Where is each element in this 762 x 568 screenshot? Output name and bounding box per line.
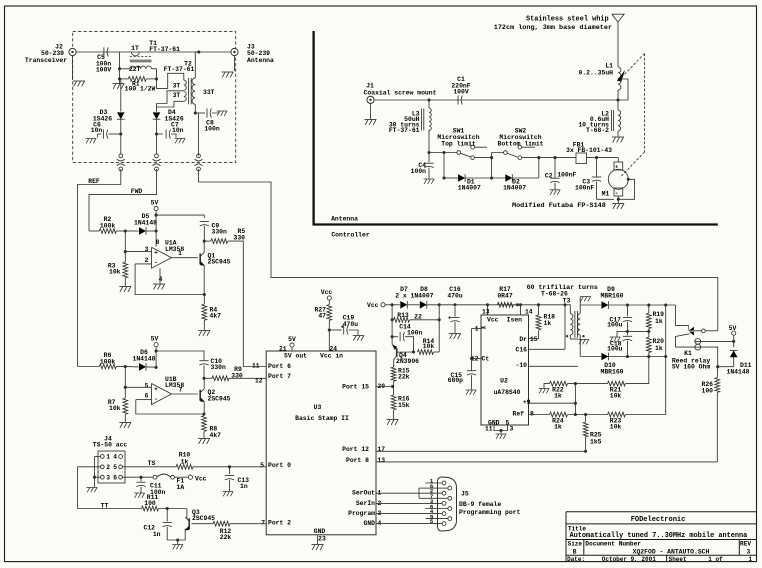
svg-text:-: - [154,260,158,267]
svg-text:7: 7 [261,520,265,527]
svg-text:100u: 100u [607,321,623,328]
svg-text:0.2..35uH: 0.2..35uH [578,69,613,76]
svg-text:REV: REV [740,541,751,548]
svg-text:Port 2: Port 2 [268,520,291,527]
svg-text:Port 12: Port 12 [342,446,369,453]
svg-text:4k7: 4k7 [210,313,222,320]
svg-text:GND: GND [488,419,500,426]
svg-text:Ref: Ref [512,410,524,417]
svg-text:172cm long, 3mm base diameter: 172cm long, 3mm base diameter [494,24,612,32]
svg-text:TS-50 acc: TS-50 acc [93,442,128,449]
svg-text:10k: 10k [109,269,121,276]
svg-text:Isen: Isen [507,316,523,323]
svg-text:330: 330 [234,234,246,241]
svg-text:+: + [154,386,158,393]
svg-text:17: 17 [378,446,386,453]
svg-text:FT-37-61: FT-37-61 [149,46,180,53]
svg-text:Document Number: Document Number [585,541,641,548]
svg-text:R13: R13 [397,312,409,319]
svg-text:2SC945: 2SC945 [208,259,231,266]
svg-text:15k: 15k [398,402,410,409]
svg-text:5V: 5V [151,335,159,342]
svg-text:5V: 5V [288,336,296,343]
svg-text:3T: 3T [173,82,181,89]
svg-text:GND: GND [363,520,375,527]
svg-text:2: 2 [106,464,110,471]
svg-text:MBR160: MBR160 [600,369,623,376]
svg-text:5V: 5V [729,325,737,332]
svg-text:J5: J5 [461,490,469,497]
svg-text:1: 1 [178,250,182,257]
svg-text:5V 160 Ohm: 5V 160 Ohm [672,364,711,371]
svg-text:Antenna: Antenna [247,57,274,64]
svg-text:5V out: 5V out [284,352,307,359]
svg-text:Programming port: Programming port [459,509,521,516]
svg-text:3x FB-101-43: 3x FB-101-43 [566,147,612,154]
svg-text:23: 23 [318,536,326,543]
svg-text:8: 8 [156,239,160,246]
svg-text:10k: 10k [610,424,622,431]
svg-text:10n: 10n [172,127,184,134]
svg-text:1A: 1A [177,484,185,491]
svg-text:L1: L1 [605,62,613,69]
svg-text:8: 8 [530,410,534,417]
svg-text:1n: 1n [240,483,248,490]
svg-text:3T: 3T [173,92,181,99]
svg-text:1k: 1k [655,345,663,352]
svg-text:SerIn: SerIn [356,500,375,507]
svg-text:FT-37-61: FT-37-61 [164,66,195,73]
svg-text:+9: +9 [523,399,531,406]
svg-text:FT-37-61: FT-37-61 [389,127,420,134]
svg-text:1k: 1k [181,458,189,465]
svg-text:Transceiver: Transceiver [25,57,67,64]
svg-text:1k: 1k [554,392,562,399]
svg-text:2SC945: 2SC945 [192,515,215,522]
svg-text:FWD: FWD [131,188,143,195]
svg-text:12: 12 [255,377,263,384]
svg-text:R10: R10 [179,451,191,458]
svg-text:GND: GND [314,528,326,535]
svg-text:T-68-26: T-68-26 [541,290,568,297]
svg-text:T-68-2: T-68-2 [586,127,609,134]
svg-text:Vcc: Vcc [321,289,333,296]
svg-text:1T: 1T [131,45,139,52]
svg-text:13: 13 [378,457,386,464]
svg-text:K1: K1 [684,350,692,357]
svg-text:Vcc: Vcc [195,475,207,482]
svg-text:10n: 10n [91,127,103,134]
svg-text:M1: M1 [602,191,610,198]
svg-text:100n: 100n [407,330,423,337]
svg-text:10k: 10k [423,343,435,350]
svg-text:100V: 100V [453,89,469,96]
svg-text:330n: 330n [212,229,228,236]
svg-text:U2: U2 [500,377,508,384]
svg-text:10k: 10k [109,405,121,412]
svg-text:C2: C2 [545,172,553,179]
svg-text:SerOut: SerOut [352,490,375,497]
svg-text:Antenna: Antenna [331,216,358,223]
svg-text:100n: 100n [204,126,220,133]
svg-text:TT: TT [101,502,109,509]
svg-text:1n: 1n [153,531,161,538]
svg-text:100: 100 [144,500,156,507]
svg-text:1N4148: 1N4148 [132,355,155,362]
svg-text:Sheet: Sheet [669,556,687,563]
svg-text:1k: 1k [554,424,562,431]
svg-text:100n: 100n [411,168,427,175]
svg-text:4: 4 [113,454,117,461]
svg-text:DB-9 female: DB-9 female [459,501,501,508]
svg-text:330n: 330n [211,364,227,371]
svg-text:+: + [154,250,158,257]
svg-text:100 1/2W: 100 1/2W [125,86,156,93]
svg-text:4: 4 [159,276,163,283]
svg-text:1k: 1k [544,320,552,327]
svg-text:13: 13 [482,309,490,316]
svg-text:Basic Stamp II: Basic Stamp II [295,415,349,422]
svg-text:1: 1 [475,326,479,333]
svg-text:0R47: 0R47 [497,292,513,299]
svg-text:22k: 22k [220,534,232,541]
svg-text:1N4007: 1N4007 [458,185,481,192]
svg-text:4k7: 4k7 [210,432,222,439]
svg-text:11: 11 [485,426,493,433]
svg-text:-10: -10 [515,362,527,369]
svg-text:3: 3 [510,426,514,433]
svg-text:7: 7 [179,387,183,394]
svg-text:U3: U3 [314,404,322,411]
svg-text:Port 0: Port 0 [268,462,291,469]
svg-text:Port 15: Port 15 [342,383,369,390]
svg-text:MBR160: MBR160 [600,292,623,299]
svg-text:J1: J1 [366,82,374,89]
svg-text:100: 100 [701,387,713,394]
svg-text:5: 5 [506,419,510,426]
svg-text:1N4007: 1N4007 [503,185,526,192]
svg-text:1N4148: 1N4148 [726,368,749,375]
svg-text:Vcc: Vcc [487,316,499,323]
svg-text:6: 6 [113,474,117,481]
svg-text:C16: C16 [515,347,527,354]
svg-text:22: 22 [414,313,422,320]
svg-text:100u: 100u [607,346,623,353]
svg-text:10k: 10k [610,392,622,399]
svg-text:6: 6 [145,393,149,400]
svg-text:-: - [154,396,158,403]
svg-text:REF: REF [88,178,100,185]
svg-text:470u: 470u [343,321,359,328]
svg-text:2 x: 2 x [395,292,407,299]
svg-text:5V: 5V [151,199,159,206]
svg-text:1k: 1k [655,318,663,325]
svg-text:3: 3 [106,474,110,481]
svg-text:1N4148: 1N4148 [134,219,157,226]
svg-text:uA78S40: uA78S40 [494,389,521,396]
svg-text:October 9, 2001: October 9, 2001 [602,556,656,563]
svg-text:TS: TS [148,460,156,467]
svg-text:1: 1 [749,556,753,563]
svg-text:100k: 100k [100,222,116,229]
svg-text:15: 15 [530,336,538,343]
svg-text:3: 3 [747,548,751,555]
svg-text:T3: T3 [563,297,571,304]
svg-text:Modified Futaba FP-S148: Modified Futaba FP-S148 [512,202,606,210]
svg-text:14: 14 [525,309,533,316]
svg-text:Coaxial screw mount: Coaxial screw mount [364,89,437,96]
svg-text:1N4007: 1N4007 [410,292,433,299]
svg-text:Ct: Ct [482,356,490,363]
svg-text:22T: 22T [129,66,141,73]
svg-text:100nF: 100nF [575,185,594,192]
svg-text:2SC945: 2SC945 [208,395,231,402]
svg-text:1: 1 [106,454,110,461]
svg-text:Vcc: Vcc [367,302,379,309]
svg-text:680p: 680p [448,377,464,384]
svg-text:330: 330 [231,372,243,379]
svg-text:100nF: 100nF [557,171,576,178]
svg-text:1k5: 1k5 [590,438,602,445]
svg-text:470u: 470u [447,292,463,299]
svg-text:Size: Size [568,541,583,548]
svg-text:XQ2FOD - ANTAUTO.SCH: XQ2FOD - ANTAUTO.SCH [633,548,710,555]
svg-text:Date:: Date: [567,556,585,563]
svg-text:Vcc in: Vcc in [320,352,343,359]
svg-text:Stainless steel whip: Stainless steel whip [526,15,609,23]
svg-text:3: 3 [145,246,149,253]
svg-text:B: B [573,548,577,555]
svg-text:22k: 22k [398,374,410,381]
svg-text:Port 8: Port 8 [346,457,369,464]
svg-text:FODelectronic: FODelectronic [631,516,686,524]
svg-text:Port 6: Port 6 [268,363,291,370]
svg-text:5: 5 [145,383,149,390]
svg-text:47: 47 [318,313,326,320]
svg-text:33T: 33T [203,89,215,96]
svg-text:2: 2 [145,257,149,264]
svg-text:Program: Program [348,510,375,517]
svg-text:100k: 100k [100,358,116,365]
svg-text:5: 5 [260,462,264,469]
svg-text:11: 11 [252,362,260,369]
svg-text:Automatically tuned 7..30MHz m: Automatically tuned 7..30MHz mobile ante… [570,532,748,540]
svg-text:2N3906: 2N3906 [396,358,419,365]
svg-text:Controller: Controller [331,232,370,239]
svg-text:100V: 100V [96,67,112,74]
svg-text:Dr: Dr [519,336,527,343]
svg-text:5: 5 [113,464,117,471]
svg-text:1 of: 1 of [708,556,723,563]
svg-text:-: - [615,190,619,197]
svg-text:Port 7: Port 7 [268,373,291,380]
